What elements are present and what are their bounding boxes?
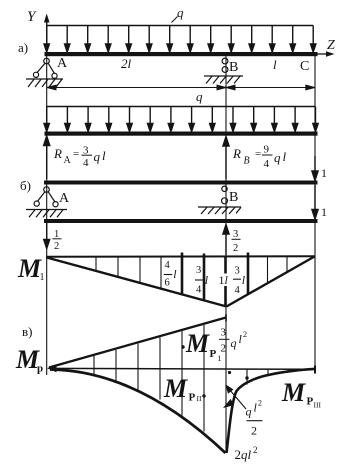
svg-text:3: 3 — [221, 327, 227, 339]
svg-text:3: 3 — [233, 229, 238, 240]
load label q (top) — [172, 5, 185, 23]
span label 2l — [121, 56, 132, 71]
MP parabola A-B — [50, 370, 226, 454]
label B (diagram a) — [229, 60, 238, 75]
svg-text:q: q — [231, 336, 237, 350]
Z axis — [317, 38, 335, 57]
svg-text:2: 2 — [54, 241, 59, 252]
svg-text:Y: Y — [27, 9, 37, 25]
unit force 1 at C (lower) — [312, 185, 327, 219]
svg-text:B: B — [244, 156, 250, 167]
roller support B (unit state) — [198, 186, 241, 214]
svg-text:Р: Р — [307, 396, 314, 408]
beam a — [45, 52, 318, 56]
svg-text:2: 2 — [251, 424, 257, 438]
label b) — [20, 178, 31, 193]
label M_P_III — [281, 378, 321, 410]
svg-text:B: B — [229, 190, 238, 205]
MP hatch lines left — [94, 325, 204, 432]
label M1 — [17, 254, 45, 283]
leader with arrowheads marking ql^2/2 ordinate on B line — [225, 386, 247, 410]
M1 baseline — [46, 255, 315, 258]
roller support B (diagram a) — [204, 58, 243, 83]
MP1 sloped line (triangle component) — [49, 314, 226, 368]
svg-text:C: C — [300, 59, 309, 74]
svg-text:1l: 1l — [219, 273, 229, 287]
MP origin point — [47, 365, 57, 373]
svg-text:A: A — [59, 191, 70, 206]
svg-text:2: 2 — [253, 445, 258, 455]
svg-text:2l: 2l — [121, 56, 132, 71]
svg-text:l: l — [173, 267, 177, 281]
svg-text:l: l — [254, 401, 258, 415]
M1 diagram right slope — [227, 257, 315, 307]
fraction ql^2/2 — [246, 399, 263, 438]
svg-text:Р: Р — [189, 392, 196, 404]
svg-text:1: 1 — [321, 166, 327, 180]
beam (unit reactions line) — [44, 219, 318, 223]
svg-text:l: l — [283, 149, 287, 164]
reaction arrow 1/2 down at A — [44, 223, 50, 249]
svg-text:2: 2 — [258, 399, 262, 408]
MP parabola B-C — [227, 369, 315, 453]
node A construction line — [46, 20, 48, 375]
label A (unit state) — [59, 191, 70, 206]
M1 hatch lines — [96, 257, 287, 289]
svg-text:A: A — [64, 155, 72, 166]
reaction arrow R_B — [223, 137, 229, 180]
svg-text:q: q — [246, 405, 252, 419]
reaction arrow R_A — [44, 136, 50, 179]
svg-text:q: q — [274, 150, 281, 165]
label M_P — [15, 345, 43, 375]
svg-text:R: R — [53, 146, 62, 161]
ordinate label 4/6 l — [164, 260, 178, 289]
svg-text:2: 2 — [243, 330, 247, 339]
svg-text:9: 9 — [264, 144, 270, 156]
svg-text:4: 4 — [165, 260, 171, 271]
svg-text:l: l — [273, 57, 277, 72]
label a) — [18, 40, 28, 55]
label M_P1 = 3/2 ql^2 — [185, 327, 247, 364]
svg-text:q: q — [177, 5, 184, 20]
svg-text:1: 1 — [218, 354, 222, 363]
svg-text:б): б) — [20, 178, 31, 193]
label C (diagram a) — [300, 59, 309, 74]
svg-text:а): а) — [18, 40, 28, 55]
label 2ql^2 — [235, 445, 258, 462]
M1 diagram left slope — [47, 258, 227, 307]
svg-text:4: 4 — [196, 285, 202, 296]
label A (diagram a) — [57, 56, 68, 71]
reaction arrow 3/2 up at B — [223, 225, 229, 256]
load label q (reactions row) — [188, 89, 203, 106]
svg-text:A: A — [57, 56, 68, 71]
label R_B = 9/4 ql — [232, 144, 287, 171]
ordinate dots — [181, 345, 248, 397]
svg-text:=: = — [255, 148, 261, 160]
svg-text:3: 3 — [196, 265, 201, 276]
svg-text:в): в) — [22, 324, 32, 339]
svg-text:Z: Z — [327, 38, 335, 53]
label R_A = 3/4 ql — [53, 145, 106, 170]
node C construction line — [314, 56, 316, 369]
svg-text:II: II — [197, 394, 202, 403]
svg-text:M: M — [163, 374, 188, 403]
svg-text:q: q — [196, 89, 203, 104]
Y axis — [27, 9, 50, 52]
svg-text:6: 6 — [165, 278, 170, 289]
ordinate label 3/4 l (right) — [233, 266, 246, 296]
svg-text:4: 4 — [264, 158, 270, 170]
svg-text:M: M — [17, 254, 42, 283]
span label l — [273, 57, 277, 72]
svg-text:III: III — [314, 401, 322, 410]
distributed load q on beam a — [44, 26, 316, 53]
distributed load q (diagram of reactions) — [44, 107, 318, 132]
node B construction line — [225, 56, 227, 451]
fraction 1/2 — [53, 229, 62, 252]
svg-text:l: l — [242, 273, 246, 287]
M1 ordinate bars (bold) — [182, 253, 248, 307]
svg-text:l: l — [239, 332, 243, 346]
MP hatch lines right — [247, 370, 288, 385]
svg-text:1: 1 — [321, 205, 327, 219]
svg-text:M: M — [281, 378, 306, 407]
label M_P_II — [163, 374, 202, 404]
svg-text:1: 1 — [40, 272, 45, 283]
unit force 1 at C (upper) — [312, 156, 327, 181]
label v) — [22, 324, 32, 339]
svg-text:l: l — [102, 148, 106, 163]
svg-text:l: l — [205, 273, 209, 287]
svg-text:B: B — [229, 60, 238, 75]
svg-text:4: 4 — [235, 285, 241, 296]
label B (unit state) — [229, 190, 238, 205]
svg-text:р: р — [37, 363, 43, 375]
ordinate label 3/4 l (left) — [195, 265, 209, 296]
svg-text:Р: Р — [210, 348, 217, 360]
svg-text:M: M — [185, 329, 210, 358]
svg-text:2: 2 — [221, 343, 227, 355]
svg-text:q: q — [94, 149, 101, 164]
svg-text:3: 3 — [235, 266, 240, 277]
beam (reactions row) — [45, 132, 318, 136]
dimension line A-B-C — [47, 85, 315, 90]
pin support A (diagram a) — [26, 58, 63, 87]
beam (unit state, upper) — [44, 181, 318, 185]
pin support A (unit state) — [26, 187, 67, 218]
svg-text:4: 4 — [83, 157, 89, 169]
fraction 3/2 — [232, 229, 241, 254]
MP baseline — [49, 366, 315, 374]
svg-text:R: R — [232, 146, 241, 161]
svg-text:2: 2 — [233, 243, 238, 254]
ordinate label 1l — [217, 273, 231, 287]
svg-text:=: = — [73, 148, 79, 160]
svg-text:2ql: 2ql — [235, 447, 252, 462]
